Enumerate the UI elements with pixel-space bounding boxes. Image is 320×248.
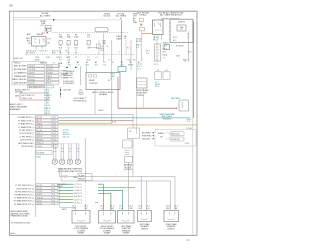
svg-text:AUDIO 20P: AUDIO 20P <box>14 57 24 60</box>
svg-text:R-B 7 D: R-B 7 D <box>29 76 36 78</box>
wire bus upper <box>14 17 41 19</box>
splice label S-201 <box>112 122 116 124</box>
junction dot B <box>75 67 77 69</box>
text rows left of tall box <box>136 39 150 56</box>
speaker connector labels D <box>138 205 150 210</box>
connector labels under row <box>35 57 70 61</box>
wire section divider <box>10 114 134 176</box>
svg-text:BK 8: BK 8 <box>163 52 167 54</box>
wire dashed run <box>52 31 128 33</box>
svg-text:8: 8 <box>54 204 55 206</box>
teal labels row under band <box>108 60 136 62</box>
svg-text:G-Y 21: G-Y 21 <box>37 188 42 190</box>
svg-text:W-G 17: W-G 17 <box>37 133 43 135</box>
small marks y44-48 <box>97 44 109 49</box>
svg-text:Y-R 16: Y-R 16 <box>48 66 53 68</box>
speaker E caption <box>165 223 177 231</box>
svg-text:C1 9: C1 9 <box>174 205 178 207</box>
radio table rows <box>18 116 58 148</box>
svg-text:C-204: C-204 <box>185 143 189 145</box>
theft module header <box>116 36 123 40</box>
svg-text:1: 1 <box>54 188 55 190</box>
svg-text:22: 22 <box>102 46 104 48</box>
svg-text:(CONDENSER): (CONDENSER) <box>63 83 75 85</box>
svg-text:L-B 16 C1: L-B 16 C1 <box>74 202 82 204</box>
svg-text:C1 8: C1 8 <box>138 205 142 207</box>
svg-text:L-Y 22: L-Y 22 <box>37 185 42 187</box>
svg-text:LT REAR SPKR (+): LT REAR SPKR (+) <box>18 123 34 126</box>
svg-text:RT FRT SPKR (+): RT FRT SPKR (+) <box>19 130 34 132</box>
svg-text:LT REAR SPKR (-): LT REAR SPKR (-) <box>18 126 34 129</box>
right edge teal labels <box>187 119 192 123</box>
small caption left-mid <box>63 89 71 91</box>
svg-text:W/O PREMIUM: W/O PREMIUM <box>63 71 75 73</box>
svg-text:C1 3: C1 3 <box>100 205 104 207</box>
amp table row inner labels <box>37 185 55 206</box>
svg-text:BR-B 15: BR-B 15 <box>37 139 43 141</box>
wire from sub box down to C <box>127 163 129 211</box>
amplifier connector table (bottom left) <box>14 184 58 206</box>
svg-text:(FRONT AND REAR DOORS): (FRONT AND REAR DOORS) <box>58 170 83 173</box>
bottom wire 3 teal <box>59 189 123 210</box>
svg-text:IGN 2: IGN 2 <box>176 56 180 58</box>
svg-text:IG 4: IG 4 <box>101 50 104 52</box>
footer text bottom-right <box>187 239 191 241</box>
amplifier caption <box>11 210 30 218</box>
svg-text:O-W 19: O-W 19 <box>37 127 43 129</box>
svg-text:16: 16 <box>54 136 56 138</box>
relay K1 <box>153 20 164 35</box>
sub box chain mid <box>123 140 133 163</box>
wire teal mid vertical <box>111 40 113 123</box>
border frame outer <box>9 11 197 235</box>
speaker box B <box>99 211 116 224</box>
svg-text:Y-B 13: Y-B 13 <box>37 146 42 148</box>
svg-text:G-W 18 C1: G-W 18 C1 <box>74 196 83 198</box>
svg-text:ACC/IGN FEED: ACC/IGN FEED <box>14 68 27 71</box>
svg-text:GROUND: GROUND <box>142 138 151 140</box>
wire with arrows mid-left <box>60 87 62 98</box>
labels under ticks <box>59 57 98 61</box>
wire green long <box>59 122 113 124</box>
left table footer row <box>28 85 54 88</box>
speaker D caption <box>140 223 151 231</box>
svg-text:B+ 5: B+ 5 <box>173 40 176 42</box>
svg-text:RELAY: RELAY <box>89 79 96 82</box>
resistor ballast rounded box <box>95 28 108 32</box>
svg-text:AMP 2: AMP 2 <box>62 208 67 211</box>
svg-text:P 2: P 2 <box>127 48 130 50</box>
bottom wire 7 teal <box>59 201 99 204</box>
svg-text:14: 14 <box>107 46 109 48</box>
squiggle mark on wire <box>115 175 117 177</box>
wire bus second <box>14 19 122 21</box>
left table row inner labels <box>29 66 36 85</box>
svg-text:G 5: G 5 <box>146 53 149 55</box>
wire x126 <box>125 40 127 55</box>
antenna caption <box>160 113 175 121</box>
svg-text:L-Y 22 C1: L-Y 22 C1 <box>74 184 82 186</box>
wires from relay K2 <box>36 46 42 49</box>
wire x99 <box>98 40 100 55</box>
svg-text:BLOCK: BLOCK <box>104 16 111 18</box>
relay K2 left labels <box>26 37 31 45</box>
relay K2 right labels <box>48 39 53 45</box>
svg-text:G200 (IP): G200 (IP) <box>63 89 71 91</box>
svg-text:C2 (16P): C2 (16P) <box>37 152 45 154</box>
node label block top-left <box>40 12 51 17</box>
svg-text:LAMP: LAMP <box>117 37 123 40</box>
speaker SP4 <box>75 159 80 164</box>
svg-text:C1 1: C1 1 <box>84 205 88 207</box>
svg-text:BATTERY JUNCTION: BATTERY JUNCTION <box>162 17 180 20</box>
svg-text:OR ACC: OR ACC <box>139 14 147 17</box>
pin ticks on box left <box>169 23 171 39</box>
small caption mid <box>74 89 87 102</box>
svg-text:Y-G 17 C1: Y-G 17 C1 <box>74 199 82 201</box>
svg-text:IG1 C: IG1 C <box>163 49 168 51</box>
svg-text:R 3: R 3 <box>136 47 139 49</box>
svg-text:17: 17 <box>54 133 56 135</box>
svg-text:RT REAR SPKR (-): RT REAR SPKR (-) <box>18 119 34 122</box>
svg-text:R-L 21: R-L 21 <box>37 120 42 122</box>
svg-text:RELAY: RELAY <box>37 33 44 36</box>
svg-text:RT REAR SPKR (+): RT REAR SPKR (+) <box>18 116 34 119</box>
svg-text:(SHELF): (SHELF) <box>141 228 148 230</box>
speaker wires <box>53 144 79 159</box>
speaker A caption <box>74 226 89 235</box>
svg-text:L-R 6: L-R 6 <box>163 46 167 48</box>
node label top-middle <box>116 12 127 19</box>
svg-text:LT REAR SPKR OUT (-): LT REAR SPKR OUT (-) <box>14 197 34 200</box>
wire into amp box <box>81 66 87 85</box>
connector pin text pairs row <box>26 50 68 54</box>
svg-text:P-ANT: P-ANT <box>79 175 85 178</box>
svg-text:G-Y 22: G-Y 22 <box>37 117 42 119</box>
wire orange long <box>59 124 198 126</box>
svg-text:3: 3 <box>54 191 55 193</box>
left connector table header <box>14 57 55 64</box>
svg-text:15: 15 <box>54 139 56 141</box>
svg-text:6: 6 <box>54 197 55 199</box>
svg-text:L-G 20: L-G 20 <box>37 191 42 193</box>
svg-text:W-B 2: W-B 2 <box>99 110 104 112</box>
junction dot A <box>66 67 68 69</box>
svg-text:L4030: L4030 <box>10 233 15 235</box>
svg-text:5: 5 <box>54 200 55 202</box>
svg-text:F9: F9 <box>180 29 182 31</box>
speaker connector labels C <box>119 205 133 210</box>
wire pink x131 <box>130 40 132 70</box>
ladder labels near ignition <box>101 35 128 52</box>
svg-text:G-W 18: G-W 18 <box>37 197 43 199</box>
svg-text:L-G 20 C1: L-G 20 C1 <box>74 190 82 192</box>
footer text bottom-left <box>10 233 15 235</box>
svg-text:G-B 19 C1: G-B 19 C1 <box>74 193 83 195</box>
page header text top-left <box>9 5 12 7</box>
svg-text:LT FRT SPKR OUT (+): LT FRT SPKR OUT (+) <box>16 185 35 187</box>
antenna label <box>171 97 181 100</box>
svg-text:20: 20 <box>54 123 56 125</box>
teal corner label <box>186 127 192 130</box>
ignition switch tall box <box>155 44 161 61</box>
svg-text:- W-L 13: - W-L 13 <box>62 137 69 139</box>
svg-text:G-301: G-301 <box>36 157 41 159</box>
svg-text:B+: B+ <box>120 18 122 20</box>
node label column x107 <box>104 13 111 17</box>
right column extra labels <box>176 45 192 62</box>
orange jumper wire <box>142 33 153 35</box>
antenna mast component <box>179 100 189 111</box>
border inner left line <box>12 11 14 62</box>
svg-text:BR 2: BR 2 <box>155 86 159 88</box>
wire W1 to rear speakers <box>60 177 175 211</box>
svg-text:W/ AMP: W/ AMP <box>123 232 130 235</box>
svg-text:BATT B+ FEED: BATT B+ FEED <box>14 65 27 68</box>
speaker box D <box>138 211 152 222</box>
svg-text:(FENDER): (FENDER) <box>163 119 172 121</box>
highlighted row (red) <box>15 93 48 100</box>
svg-text:ANT RELAY FD: ANT RELAY FD <box>22 94 35 97</box>
inline connector box mid <box>128 128 140 139</box>
svg-text:ANT MAST: ANT MAST <box>171 97 181 100</box>
sub box caption <box>124 163 134 171</box>
svg-text:L-W 10: L-W 10 <box>48 69 53 71</box>
wire maroon long <box>59 120 134 122</box>
svg-text:ANT FEED: ANT FEED <box>142 131 152 134</box>
svg-text:B 14 GD: B 14 GD <box>29 83 36 85</box>
text rows right of tall box <box>163 42 170 60</box>
speaker box E <box>164 211 179 222</box>
bottom wire 4 dark green <box>59 192 111 210</box>
svg-text:RT REAR SPKR OUT (-): RT REAR SPKR OUT (-) <box>14 203 34 206</box>
svg-text:G-B 19: G-B 19 <box>37 194 42 196</box>
speaker C caption <box>121 225 132 235</box>
svg-text:SW: SW <box>102 43 105 45</box>
audio unit C1 outline box <box>12 62 46 85</box>
wire from amp box down <box>94 90 96 115</box>
svg-text:B 10: B 10 <box>101 48 104 50</box>
teal text rows right section <box>137 64 142 71</box>
svg-text:CONTROL: CONTROL <box>89 83 98 85</box>
note caption <box>63 81 75 85</box>
accessory relay K2 <box>32 37 47 47</box>
svg-text:S-201: S-201 <box>112 122 116 124</box>
bottom wire 1 teal <box>59 183 104 210</box>
svg-text:BR 9: BR 9 <box>52 52 56 54</box>
fuse F1 label <box>40 21 46 27</box>
svg-text:RT FRT SPKR (-): RT FRT SPKR (-) <box>20 133 34 135</box>
teal label rows right of table <box>44 90 51 115</box>
svg-text:PIN C1: PIN C1 <box>14 62 21 64</box>
radio table bottom box <box>36 150 52 158</box>
wire W2 to rear speakers <box>61 181 170 211</box>
wire branch to speaker D right <box>146 181 148 211</box>
svg-text:LT FRT SPKR OUT (-): LT FRT SPKR OUT (-) <box>16 188 34 190</box>
svg-text:BR-W: BR-W <box>128 64 133 66</box>
svg-text:CASE GROUND: CASE GROUND <box>13 82 27 85</box>
tuner inner labels <box>158 133 165 138</box>
fuse F1 <box>42 26 51 35</box>
connector C301 teal box <box>118 67 126 72</box>
relay K1 pin labels <box>153 37 158 66</box>
small box pair right <box>155 70 171 79</box>
svg-text:19: 19 <box>54 127 56 129</box>
svg-text:Y-R 3 L-B 1: Y-R 3 L-B 1 <box>39 50 48 52</box>
svg-text:B+: B+ <box>108 80 110 82</box>
svg-text:RADIO GROUND: RADIO GROUND <box>12 78 27 81</box>
svg-text:C1: C1 <box>95 57 97 59</box>
relay K3 caption <box>137 89 150 97</box>
svg-text:L-B 16: L-B 16 <box>37 204 42 206</box>
svg-text:B 14: B 14 <box>48 83 51 85</box>
bottom wire 2 green <box>59 186 136 189</box>
svg-text:(20 PIN): (20 PIN) <box>15 92 23 94</box>
speaker connector labels E <box>166 205 178 210</box>
svg-text:SHLD 14: SHLD 14 <box>37 143 44 145</box>
svg-text:C-21: C-21 <box>187 121 191 123</box>
fuse row mid lower labels <box>59 47 91 49</box>
svg-text:2: 2 <box>54 194 55 196</box>
svg-text:FUSE 22: FUSE 22 <box>178 22 185 24</box>
svg-text:C2 1: C2 1 <box>137 68 141 70</box>
svg-text:ASSEMBLY: ASSEMBLY <box>10 108 21 111</box>
svg-text:CIRCUIT PG 2: CIRCUIT PG 2 <box>63 77 74 79</box>
svg-text:C2: C2 <box>75 57 77 59</box>
title battery junction box <box>158 11 184 20</box>
svg-text:Y 7: Y 7 <box>163 58 166 60</box>
svg-text:RLY 2: RLY 2 <box>173 37 177 39</box>
svg-text:ALL TIMES RELAY BOX: ALL TIMES RELAY BOX <box>160 14 182 17</box>
inline connector pair right <box>166 132 189 146</box>
svg-text:(SHELF): (SHELF) <box>168 228 175 230</box>
svg-text:Y-R 16 B: Y-R 16 B <box>29 66 35 68</box>
svg-text:ALL TIMES: ALL TIMES <box>40 14 51 17</box>
border inner right line <box>192 20 194 235</box>
svg-text:C1 4: C1 4 <box>72 205 76 207</box>
fuse F30 marks <box>140 19 145 31</box>
radio connector table C2 <box>34 116 36 218</box>
svg-text:RELAY: RELAY <box>79 177 86 180</box>
svg-text:W/ AMP: W/ AMP <box>78 232 85 235</box>
speaker SP2 <box>60 159 65 164</box>
svg-text:NOISE FILTER: NOISE FILTER <box>63 81 75 83</box>
audio unit caption <box>10 103 28 111</box>
svg-text:TEL MUTE SIG: TEL MUTE SIG <box>21 146 34 148</box>
svg-text:O-B: O-B <box>124 38 127 40</box>
speaker B caption <box>100 226 115 235</box>
svg-text:BK 3: BK 3 <box>188 52 192 54</box>
relay K3 box <box>137 78 148 88</box>
svg-text:L 8: L 8 <box>108 60 110 62</box>
wire branch to speaker D left <box>140 177 142 211</box>
speaker SP3 <box>67 159 72 164</box>
node label relay area <box>137 12 149 16</box>
wires from relay K1 <box>155 35 162 40</box>
connector C301 label <box>110 74 115 81</box>
wire from F30 down <box>141 31 143 62</box>
svg-text:W/ AMP: W/ AMP <box>104 232 111 235</box>
svg-text:C1 6: C1 6 <box>119 205 123 207</box>
svg-text:G-R 16: G-R 16 <box>37 136 42 138</box>
speaker connector labels B <box>100 205 114 210</box>
svg-text:W 1: W 1 <box>133 60 136 62</box>
left table footer caption <box>15 88 31 93</box>
svg-text:G201: G201 <box>35 59 39 61</box>
relay box lower <box>73 174 92 181</box>
svg-text:B 13: B 13 <box>48 79 51 81</box>
wire mid down to A <box>84 138 86 211</box>
wire teal long <box>59 117 191 119</box>
svg-text:21: 21 <box>54 120 56 122</box>
teal rows right of K3 <box>155 81 160 88</box>
svg-text:R-Y 1: R-Y 1 <box>154 64 158 66</box>
svg-text:B 13 GD: B 13 GD <box>29 79 36 81</box>
fuse row mid <box>59 41 99 48</box>
small box column right of table <box>58 62 67 77</box>
ticks near relay lower <box>62 176 68 178</box>
wire mid vertical long <box>136 40 138 134</box>
svg-text:(I/P FUSE BOX): (I/P FUSE BOX) <box>74 100 87 102</box>
tuner label rows <box>142 131 154 140</box>
pink label <box>127 48 130 50</box>
node label column right-of-middle <box>133 13 138 24</box>
dashed separator row <box>25 54 135 56</box>
speaker box A <box>72 211 90 224</box>
svg-text:C1 5: C1 5 <box>129 205 133 207</box>
svg-text:G-W 8: G-W 8 <box>48 72 53 74</box>
wire to antenna maroon <box>118 77 177 109</box>
rail right of table <box>46 62 48 114</box>
svg-text:C1 7: C1 7 <box>146 205 150 207</box>
note text under amp <box>11 223 31 225</box>
satellite tuner outline box <box>155 130 196 147</box>
svg-text:L-Y 18: L-Y 18 <box>37 130 42 132</box>
amp box caption <box>92 91 114 96</box>
svg-text:Y-G 17: Y-G 17 <box>37 200 42 202</box>
radio table end numbers <box>54 117 56 141</box>
speaker feed bus <box>52 143 79 145</box>
svg-text:RT FRT SPKR OUT (+): RT FRT SPKR OUT (+) <box>15 191 34 193</box>
svg-text:G-W 8 IL: G-W 8 IL <box>29 73 35 75</box>
svg-text:C1 10: C1 10 <box>166 205 171 207</box>
wire teal right rail <box>193 22 195 118</box>
teal wire labels block under lines <box>62 129 70 138</box>
svg-text:C231: C231 <box>46 57 50 59</box>
svg-text:18: 18 <box>54 130 56 132</box>
svg-text:NOISE SUP: NOISE SUP <box>171 139 180 141</box>
ignition relay labels row <box>27 33 44 36</box>
svg-text:ANT FEED MOTOR: ANT FEED MOTOR <box>29 85 46 88</box>
svg-text:LT REAR SPKR OUT (+): LT REAR SPKR OUT (+) <box>14 194 34 197</box>
svg-text:ANT SHIELD GND: ANT SHIELD GND <box>18 142 34 145</box>
battery junction box outline <box>170 19 193 42</box>
svg-text:BK 2 W-R 6: BK 2 W-R 6 <box>26 52 35 54</box>
svg-text:(IN DASH): (IN DASH) <box>99 93 108 96</box>
svg-text:LT FRT SPKR (+): LT FRT SPKR (+) <box>20 136 34 138</box>
speaker connector labels A <box>72 205 88 210</box>
radio table row inner labels <box>37 117 44 148</box>
orange label <box>119 52 121 54</box>
bend to speaker A <box>60 207 76 211</box>
wire stub K3 down <box>142 88 144 108</box>
node label ignition <box>102 41 106 45</box>
svg-text:G-B 20: G-B 20 <box>37 123 42 125</box>
speakers caption <box>58 168 83 173</box>
svg-text:B1 ACC: B1 ACC <box>163 42 170 45</box>
bottom wire 5 green <box>59 195 99 198</box>
svg-text:DIMMER FEED: DIMMER FEED <box>14 76 27 78</box>
